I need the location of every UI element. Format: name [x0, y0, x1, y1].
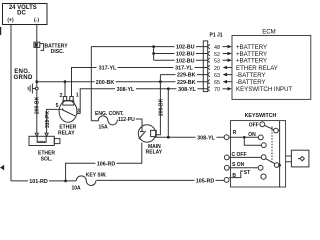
key box [286, 156, 292, 162]
node 106-RD junction [64, 180, 67, 183]
wire 200-BK/229-BK row6 ground bus [37, 81, 208, 83]
svg-text:317-YL: 317-YL [175, 66, 193, 72]
svg-text:102-BU: 102-BU [176, 58, 195, 64]
wire 102-BU row2 [154, 53, 208, 55]
svg-text:52: 52 [214, 52, 220, 58]
wire 200-BK down to ether solenoid [36, 90, 38, 133]
svg-text:308-YL: 308-YL [117, 87, 135, 93]
svg-text:102-BU: 102-BU [176, 52, 195, 58]
edge mark top [0, 27, 1, 35]
svg-text:KEY SW.: KEY SW. [86, 172, 107, 178]
svg-text:105-RD: 105-RD [196, 179, 215, 185]
wire 229/200 vertical to main relay coil [156, 75, 160, 135]
node 308-YL/keyswitch vertical [167, 136, 170, 139]
lower pivot [274, 163, 279, 168]
label 200-BK row6 [95, 79, 116, 86]
connector chevrons [207, 44, 210, 91]
node row7 keyswitch vertical [167, 87, 170, 90]
svg-text:229-BK: 229-BK [177, 80, 196, 86]
svg-text:OFF: OFF [249, 123, 259, 129]
label 101-RD [28, 178, 49, 185]
svg-text:5: 5 [56, 103, 59, 109]
S terminal [224, 165, 229, 170]
svg-text:ENG. CONT.: ENG. CONT. [95, 111, 124, 117]
svg-text:308-YL: 308-YL [178, 87, 196, 93]
svg-text:ETHER RELAY: ETHER RELAY [236, 65, 278, 72]
wire 102-BU row1 [91, 46, 207, 48]
wire 112-PU to main relay [136, 119, 142, 125]
label 102-BU row3 [175, 57, 197, 64]
svg-text:229-BK: 229-BK [177, 73, 196, 79]
keyswitch S1 [224, 113, 308, 187]
svg-text:53: 53 [214, 59, 220, 65]
svg-text:65: 65 [214, 80, 220, 86]
svg-text:KEYSWITCH INPUT: KEYSWITCH INPUT [236, 86, 292, 93]
node: minus bus junction [35, 80, 38, 83]
battery disconnect switch [34, 42, 68, 55]
svg-text:(-): (-) [34, 18, 39, 24]
svg-text:SOL.: SOL. [41, 156, 53, 162]
ENG CONT fuse F1 15A [91, 111, 124, 131]
svg-text:102-BU: 102-BU [176, 45, 195, 51]
label 105-RD [195, 178, 216, 185]
svg-text:ON: ON [248, 132, 256, 138]
wire main relay bottom 106-RD [66, 143, 142, 181]
svg-text:-BATTERY: -BATTERY [236, 79, 266, 86]
svg-text:RELAY: RELAY [146, 149, 163, 155]
wire +batt feed vertical [90, 47, 92, 121]
wire 310-PK ether sol right prong up to relay pin5 [47, 109, 61, 133]
ECM box U1 [232, 28, 311, 99]
svg-text:(+): (+) [7, 18, 14, 24]
wire vertical row7 to keyswitch R line [167, 89, 169, 137]
svg-text:KEYSWITCH: KEYSWITCH [245, 113, 277, 119]
label 102-BU row1 [175, 44, 197, 51]
connector circle B [224, 178, 229, 183]
bus for 102-BU rows [153, 47, 155, 61]
svg-text:200-BK: 200-BK [35, 96, 41, 114]
edge mark arrow [0, 165, 4, 171]
pin arrows [223, 45, 232, 91]
wire ether relay pin2 up to ground bus [64, 82, 66, 97]
upper pivot [274, 128, 279, 133]
contact below ON [261, 143, 266, 148]
svg-text:+BATTERY: +BATTERY [236, 58, 267, 65]
label 317-YL right [174, 65, 195, 72]
C terminal [224, 155, 229, 160]
battery 24V box B1 [3, 4, 48, 25]
svg-text:112-PU: 112-PU [118, 117, 135, 123]
wire 102-BU row3 [154, 59, 208, 61]
connector P1 J1 [203, 32, 222, 91]
node row1 bus [152, 45, 155, 48]
node row2 bus [152, 52, 155, 55]
svg-text:2: 2 [60, 93, 63, 99]
svg-text:63: 63 [214, 73, 220, 79]
KEY SW fuse F2 10A [72, 172, 108, 191]
ether relay K1 [56, 92, 81, 136]
label 229-BK row5 [176, 72, 198, 79]
svg-text:48: 48 [214, 45, 220, 51]
label 106-RD [96, 160, 117, 167]
wire 101-RD bottom [11, 180, 76, 182]
label 317-YL left [97, 65, 118, 72]
wire down to ground connector circle [36, 82, 38, 87]
connector circle on ground wire [35, 87, 38, 90]
svg-text:1: 1 [76, 92, 79, 98]
svg-text:20: 20 [214, 66, 220, 72]
ether solenoid SOL1 [29, 133, 60, 162]
svg-text:106-RD: 106-RD [97, 161, 116, 167]
svg-text:P1 J1: P1 J1 [210, 32, 223, 38]
svg-text:RELAY: RELAY [58, 130, 75, 136]
ground symbol [28, 84, 35, 94]
svg-text:DC: DC [17, 10, 26, 16]
label 308-YL row7 left [115, 86, 136, 93]
svg-text:101-RD: 101-RD [29, 179, 48, 185]
svg-text:10A: 10A [72, 185, 82, 191]
label 229-BK row6 [176, 79, 198, 86]
wire battery minus down [36, 25, 38, 83]
label 308-YL row7 right [177, 86, 198, 93]
connector circle R [224, 135, 229, 140]
label 102-BU row2 [175, 51, 197, 58]
inner column [279, 121, 281, 187]
wire 105-RD to keyswitch B [96, 179, 224, 181]
svg-text:DISC.: DISC. [51, 49, 65, 55]
svg-text:ECM: ECM [262, 28, 276, 35]
svg-text:310-PK: 310-PK [45, 111, 51, 128]
svg-text:200-BK: 200-BK [158, 98, 164, 116]
pin numbers [214, 45, 220, 93]
node pin2/ground bus [64, 80, 67, 83]
gang dashed line [271, 127, 273, 162]
svg-text:308-YL: 308-YL [197, 135, 215, 141]
wire 308-YL row7 [80, 89, 207, 114]
node row6/229 bus [159, 80, 162, 83]
wire 229-BK row5 [160, 74, 207, 76]
main relay K2 [138, 125, 163, 156]
svg-text:317-YL: 317-YL [99, 66, 117, 72]
svg-text:ST: ST [244, 170, 250, 176]
svg-text:70: 70 [214, 87, 220, 93]
label 308-YL keyswitch [196, 134, 217, 141]
svg-text:R: R [233, 130, 237, 136]
wire 317-YL: pin1 up and right to ECM pin20 [72, 68, 208, 97]
svg-text:-BATTERY: -BATTERY [236, 72, 266, 79]
wire battery plus down to 101-RD [10, 25, 12, 181]
upper arm [264, 125, 273, 129]
svg-text:200-BK: 200-BK [96, 80, 115, 86]
svg-text:15A: 15A [99, 125, 109, 131]
svg-text:GRND: GRND [14, 74, 33, 81]
wire main relay coil to keyswitch R 308-YL [155, 136, 224, 138]
